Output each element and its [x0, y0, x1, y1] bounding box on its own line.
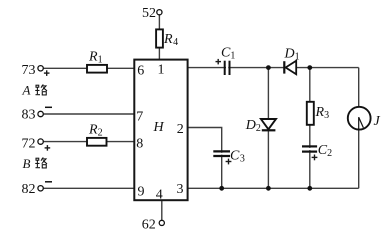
- svg-text:52: 52: [142, 6, 156, 21]
- diode D2: [261, 119, 276, 129]
- svg-text:62: 62: [142, 218, 156, 233]
- svg-text:7: 7: [136, 110, 143, 125]
- wire J bottom lead into circle: [358, 117, 360, 188]
- resistor R2: [87, 138, 107, 146]
- wire pin6 row: terminal 73 to IC pin 6: [43, 67, 134, 69]
- junction dot top after D1: [307, 65, 312, 70]
- svg-text:J: J: [374, 114, 381, 129]
- terminal 73: [38, 66, 43, 71]
- wire D2 vertical branch: [267, 68, 269, 189]
- terminal 82: [38, 186, 43, 191]
- capacitor C2: [309, 148, 312, 150]
- svg-text:72: 72: [22, 136, 36, 151]
- relay J: [348, 107, 371, 130]
- wire pin4 vertical: IC bottom to terminal 62: [161, 200, 163, 220]
- wire pin2 to C3 branch: [188, 128, 222, 189]
- capacitor C3: [220, 153, 223, 155]
- terminal 72: [38, 139, 43, 144]
- capacitor C1: [226, 62, 228, 73]
- junction dot bottom R3/C2: [307, 186, 312, 191]
- svg-text:73: 73: [22, 63, 36, 78]
- junction dot bottom C3: [219, 186, 224, 191]
- wire R3/C2 vertical branch: [309, 68, 311, 189]
- terminal 62: [159, 220, 164, 225]
- junction dot top after C1: [266, 65, 271, 70]
- wire bottom rail: IC pin3 to right: [188, 187, 359, 189]
- svg-text:8: 8: [136, 137, 143, 152]
- junction dot bottom D2: [266, 186, 271, 191]
- resistor R4: [156, 29, 163, 47]
- wire pin9 row: terminal 82 to IC pin 9: [43, 187, 134, 189]
- wire right drop to J top: [358, 68, 360, 107]
- svg-text:2: 2: [177, 122, 184, 137]
- terminal 83: [38, 111, 43, 116]
- svg-text:82: 82: [22, 182, 36, 197]
- svg-text:4: 4: [156, 188, 163, 203]
- wire pin1 vertical: terminal 52 through R4 to IC top: [158, 15, 160, 60]
- IC U1 box H: [134, 60, 187, 201]
- svg-text:83: 83: [22, 108, 36, 123]
- svg-text:3: 3: [177, 182, 184, 197]
- resistor R3: [307, 102, 314, 125]
- terminal 52: [157, 10, 162, 15]
- wire top rail: IC right top through C1, D1 to right corner: [188, 67, 359, 69]
- wire pin7 row: terminal 83 to IC pin 7: [43, 113, 134, 115]
- svg-text:1: 1: [158, 63, 165, 78]
- diode D1: [283, 61, 285, 73]
- resistor R1: [87, 65, 107, 73]
- svg-text:B: B: [23, 156, 31, 171]
- svg-text:6: 6: [137, 63, 144, 78]
- wire pin8 row: terminal 72 to IC pin 8: [43, 141, 134, 143]
- svg-text:H: H: [153, 120, 165, 135]
- svg-text:9: 9: [138, 184, 145, 199]
- svg-text:A: A: [22, 83, 31, 98]
